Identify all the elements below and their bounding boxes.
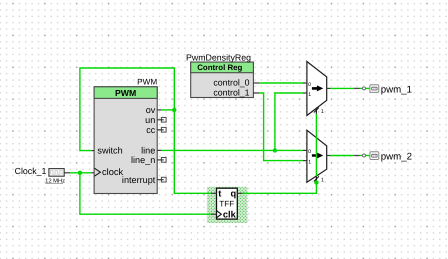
svg-text:TFF: TFF bbox=[219, 200, 234, 209]
svg-text:pwm_1: pwm_1 bbox=[381, 84, 412, 95]
svg-text:ov: ov bbox=[146, 105, 156, 115]
wire control_0 to mux U3 input 0 bbox=[259, 82, 303, 84]
svg-text:PWM: PWM bbox=[137, 78, 157, 87]
svg-text:0: 0 bbox=[308, 82, 311, 88]
pin component pwm_2 icon bbox=[370, 152, 379, 160]
svg-text:control_1: control_1 bbox=[213, 87, 249, 97]
pin lead pwm_2 bbox=[354, 155, 360, 157]
svg-text:pwm_2: pwm_2 bbox=[381, 151, 412, 162]
wire line net: PWM line to mux U4 input 0 bbox=[161, 149, 303, 151]
junction on ov net bbox=[172, 108, 176, 112]
terminal square cc bbox=[161, 127, 166, 132]
terminal square interrupt bbox=[161, 177, 166, 182]
svg-text:un: un bbox=[145, 115, 155, 125]
toggle flip-flop TFF body bbox=[217, 188, 238, 219]
junction at mux U4 select bbox=[314, 180, 318, 184]
svg-text:switch: switch bbox=[97, 146, 122, 156]
svg-text:control_0: control_0 bbox=[213, 77, 249, 87]
svg-text:cc: cc bbox=[146, 125, 156, 135]
wire ov net: ov to junction bbox=[161, 109, 174, 111]
svg-text:0: 0 bbox=[308, 149, 311, 155]
terminal square un bbox=[161, 117, 166, 122]
pin stubs TFF bbox=[211, 193, 243, 214]
svg-text:q: q bbox=[231, 189, 237, 199]
svg-text:interrupt: interrupt bbox=[122, 175, 156, 185]
wire control_1 to mux U4 input 1 bbox=[259, 93, 303, 161]
pin stub clock icon bbox=[64, 172, 70, 174]
pin stubs PWM right bbox=[157, 110, 164, 180]
wire mux U4 output to pin pwm_2 bbox=[330, 155, 353, 157]
pin stubs PWM left bbox=[92, 151, 95, 173]
svg-text:1: 1 bbox=[308, 92, 311, 98]
svg-text:1: 1 bbox=[321, 109, 324, 115]
svg-text:Clock_1: Clock_1 bbox=[15, 166, 47, 176]
svg-text:line_n: line_n bbox=[131, 155, 155, 165]
terminal square line_n bbox=[161, 158, 166, 163]
wire TFF q to mux select lines bbox=[243, 183, 317, 194]
multiplexer U4 (bottom) bbox=[307, 130, 327, 182]
svg-text:1: 1 bbox=[308, 160, 311, 166]
wire mux U3 output to pin pwm_1 bbox=[330, 87, 353, 89]
pin lead pwm_1 bbox=[354, 87, 360, 89]
wire ov to TFF t input bbox=[174, 110, 211, 193]
selection halo around flip-flop U2 bbox=[207, 187, 248, 223]
PWM component U1 body bbox=[94, 87, 157, 194]
clock source Clock_1 (12 MHz) icon bbox=[49, 169, 64, 177]
svg-text:1: 1 bbox=[321, 178, 324, 184]
svg-text:Control Reg: Control Reg bbox=[197, 63, 242, 72]
multiplexer U3 (top) bbox=[307, 62, 327, 116]
pin stubs mux inputs/outputs bbox=[303, 83, 331, 161]
wire clock net: Clock_1 to PWM clock bbox=[70, 172, 92, 174]
svg-text:t: t bbox=[218, 189, 221, 199]
svg-text:PWM: PWM bbox=[115, 88, 136, 98]
wire ov feedback to switch bbox=[80, 68, 174, 151]
pin component pwm_1 icon bbox=[370, 85, 379, 93]
svg-text:PwmDensityReg: PwmDensityReg bbox=[186, 52, 251, 62]
bus width slash mux U4 select bbox=[314, 176, 319, 181]
control register PwmDensityReg body bbox=[191, 62, 254, 97]
wire clock branch to TFF clk bbox=[80, 173, 211, 214]
clock input chevron on PWM bbox=[94, 168, 100, 176]
bus width slash mux U3 select bbox=[314, 108, 319, 113]
pin stubs control reg bbox=[253, 83, 259, 93]
svg-text:clk: clk bbox=[223, 209, 237, 219]
wire line branch up to mux U3 input 1 bbox=[275, 93, 303, 150]
junction on clock net bbox=[78, 171, 82, 175]
svg-text:line: line bbox=[141, 146, 155, 156]
junction on line net bbox=[273, 148, 277, 152]
svg-text:clock: clock bbox=[102, 167, 124, 177]
